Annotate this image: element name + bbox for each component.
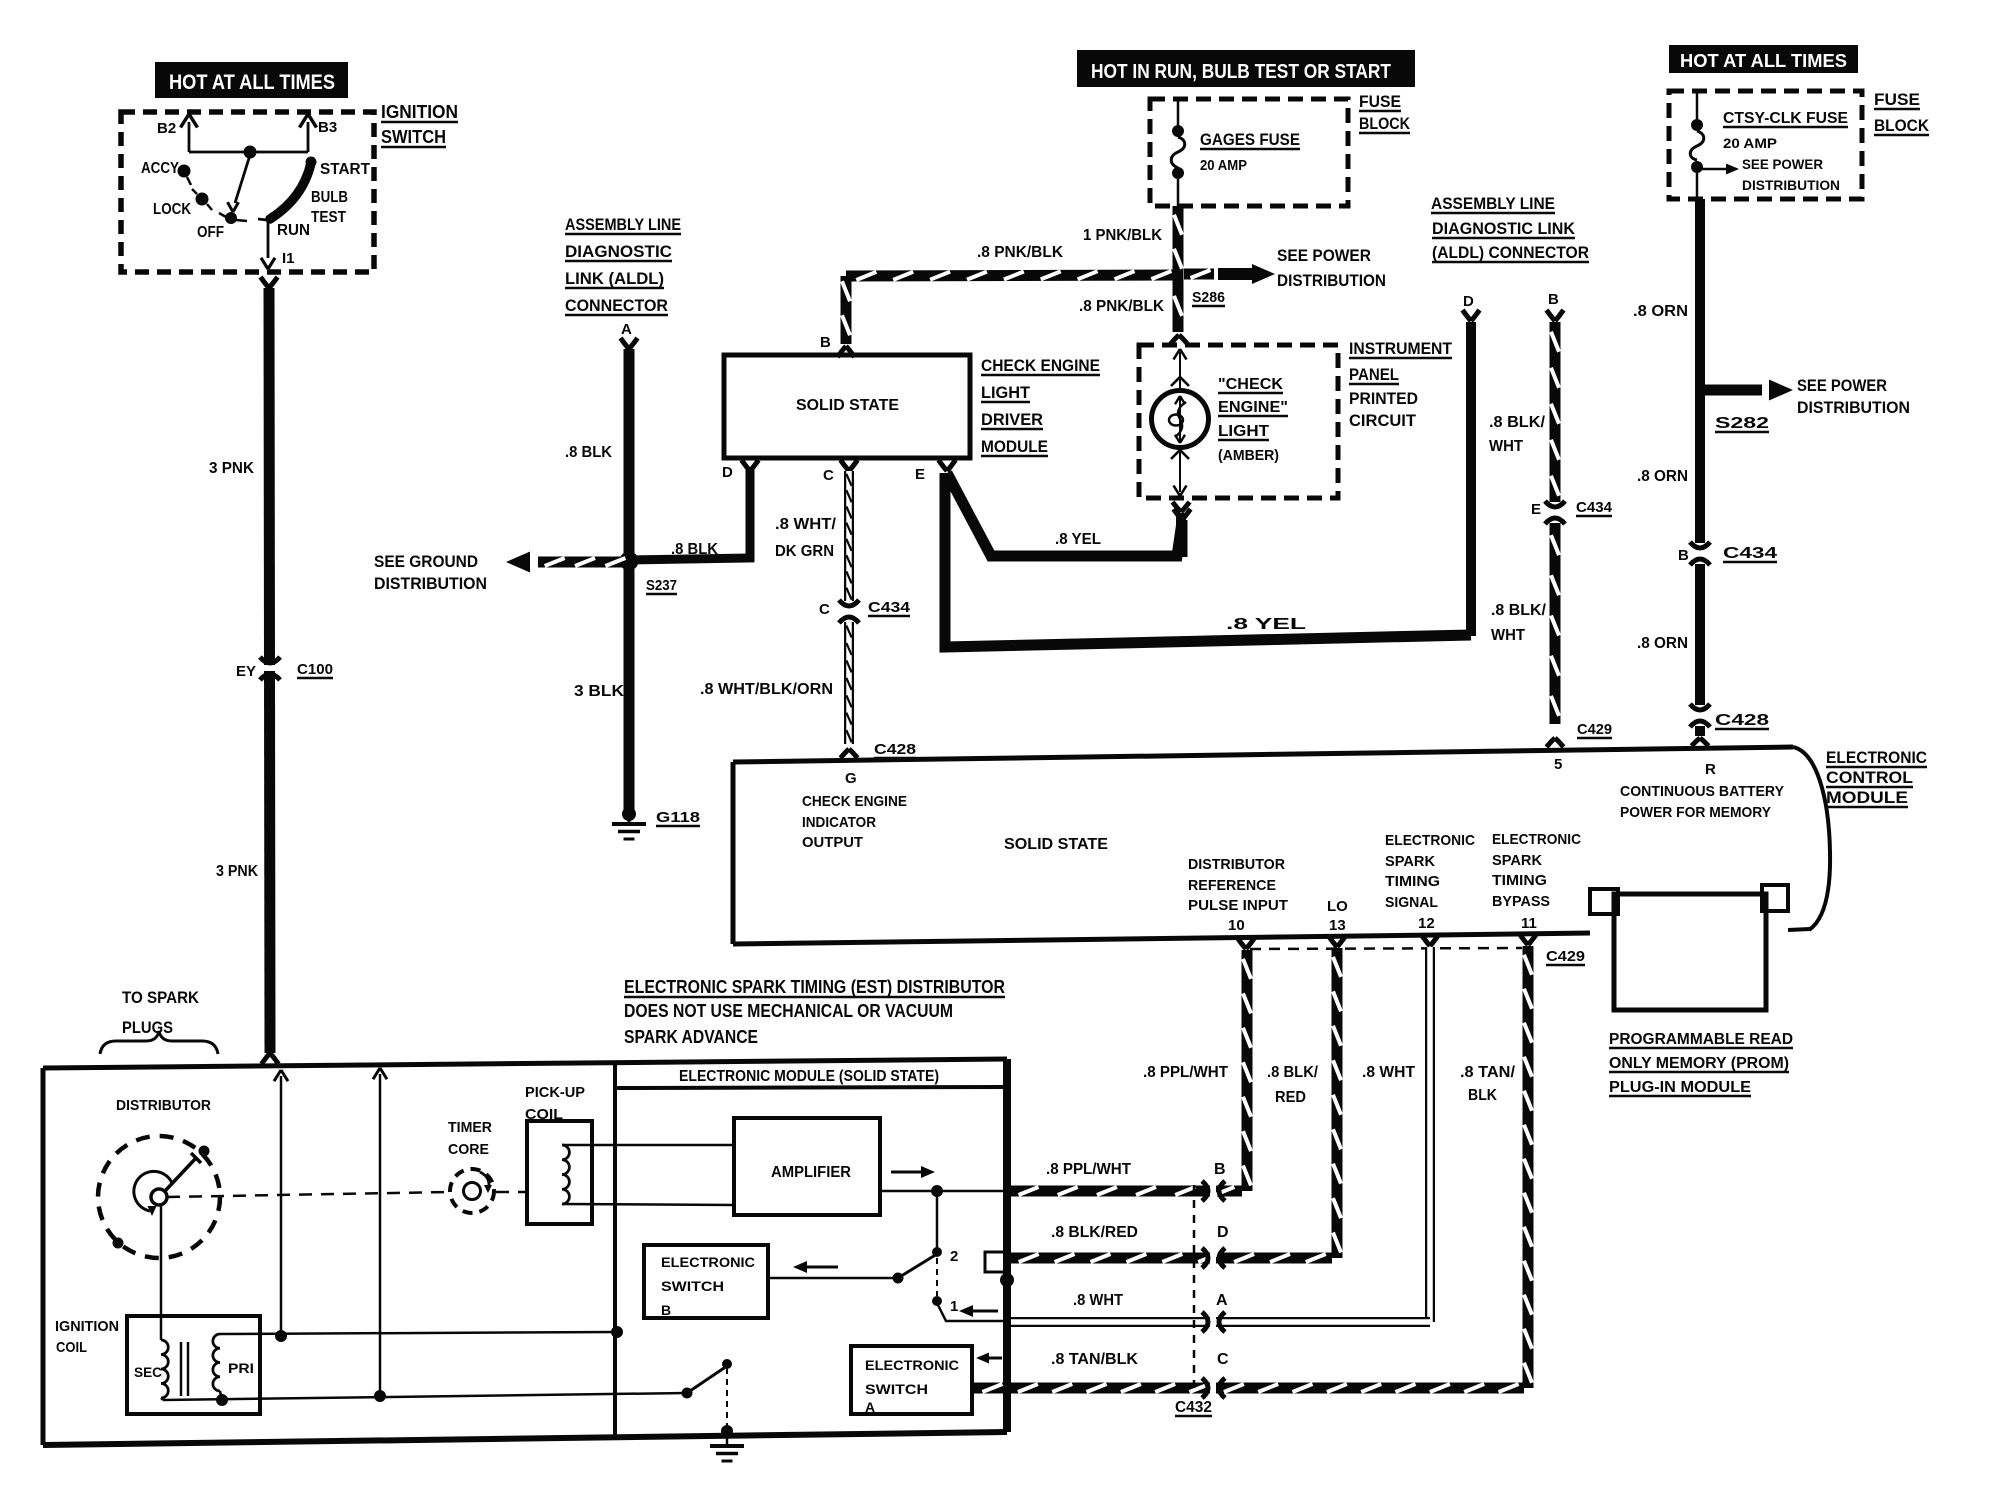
- svg-text:B2: B2: [157, 120, 176, 137]
- svg-text:BLK: BLK: [1468, 1087, 1497, 1104]
- svg-text:G: G: [845, 770, 857, 787]
- svg-text:ELECTRONIC: ELECTRONIC: [1492, 831, 1581, 848]
- svg-text:.8 BLK/: .8 BLK/: [1489, 414, 1546, 431]
- svg-text:C432: C432: [1175, 1399, 1212, 1416]
- svg-text:DIAGNOSTIC: DIAGNOSTIC: [565, 242, 672, 261]
- svg-text:TO SPARK: TO SPARK: [122, 988, 200, 1007]
- svg-text:.8 WHT/: .8 WHT/: [775, 516, 837, 533]
- svg-text:.8 BLK: .8 BLK: [671, 541, 718, 558]
- svg-text:CONNECTOR: CONNECTOR: [565, 296, 668, 315]
- svg-text:DOES NOT USE MECHANICAL OR VAC: DOES NOT USE MECHANICAL OR VACUUM: [624, 1001, 953, 1021]
- svg-text:CHECK ENGINE: CHECK ENGINE: [981, 356, 1100, 375]
- svg-text:IGNITION: IGNITION: [55, 1318, 119, 1335]
- svg-text:C434: C434: [1576, 499, 1613, 516]
- svg-text:C428: C428: [1715, 712, 1769, 729]
- svg-text:SEE POWER: SEE POWER: [1277, 246, 1371, 265]
- svg-text:EY: EY: [236, 663, 256, 680]
- svg-text:SEE GROUND: SEE GROUND: [374, 552, 478, 571]
- svg-text:SEE POWER: SEE POWER: [1797, 376, 1887, 395]
- svg-text:SWITCH: SWITCH: [865, 1381, 928, 1397]
- svg-text:DISTRIBUTION: DISTRIBUTION: [1277, 271, 1386, 290]
- svg-text:3 PNK: 3 PNK: [216, 863, 258, 880]
- svg-text:BULB: BULB: [311, 189, 348, 206]
- svg-text:TEST: TEST: [311, 209, 346, 226]
- svg-text:INSTRUMENT: INSTRUMENT: [1349, 339, 1453, 358]
- svg-text:START: START: [320, 161, 370, 178]
- svg-text:LINK (ALDL): LINK (ALDL): [565, 269, 664, 288]
- svg-text:INDICATOR: INDICATOR: [802, 814, 876, 831]
- svg-text:CONTROL: CONTROL: [1826, 768, 1913, 787]
- svg-text:GAGES FUSE: GAGES FUSE: [1200, 130, 1300, 149]
- svg-text:.8 ORN: .8 ORN: [1633, 303, 1688, 320]
- svg-text:RED: RED: [1275, 1089, 1306, 1106]
- svg-text:BLOCK: BLOCK: [1359, 114, 1411, 133]
- svg-text:SWITCH: SWITCH: [661, 1278, 724, 1294]
- svg-text:IGNITION: IGNITION: [381, 102, 458, 122]
- svg-text:5: 5: [1554, 756, 1562, 773]
- svg-text:B: B: [1678, 547, 1689, 564]
- svg-text:.8 YEL: .8 YEL: [1226, 616, 1306, 633]
- svg-text:11: 11: [1521, 915, 1537, 932]
- svg-text:CONTINUOUS BATTERY: CONTINUOUS BATTERY: [1620, 783, 1784, 800]
- svg-text:AMPLIFIER: AMPLIFIER: [771, 1164, 851, 1181]
- svg-text:DISTRIBUTION: DISTRIBUTION: [374, 574, 487, 593]
- svg-text:.8 ORN: .8 ORN: [1637, 635, 1688, 652]
- svg-text:WHT: WHT: [1491, 627, 1525, 644]
- svg-text:PICK-UP: PICK-UP: [525, 1084, 585, 1101]
- svg-text:FUSE: FUSE: [1874, 90, 1920, 109]
- svg-text:ELECTRONIC: ELECTRONIC: [1826, 748, 1927, 767]
- svg-text:2: 2: [950, 1248, 958, 1265]
- svg-text:.8 PPL/WHT: .8 PPL/WHT: [1143, 1064, 1228, 1081]
- svg-text:CIRCUIT: CIRCUIT: [1349, 411, 1417, 430]
- svg-text:LIGHT: LIGHT: [1218, 423, 1269, 440]
- svg-text:FUSE: FUSE: [1359, 92, 1401, 111]
- svg-text:.8 BLK/: .8 BLK/: [1491, 602, 1547, 619]
- svg-text:PANEL: PANEL: [1349, 365, 1399, 384]
- svg-text:PRI: PRI: [228, 1360, 254, 1376]
- svg-text:ONLY MEMORY (PROM): ONLY MEMORY (PROM): [1609, 1055, 1789, 1072]
- svg-text:C100: C100: [297, 661, 333, 678]
- svg-text:BYPASS: BYPASS: [1492, 893, 1550, 910]
- svg-text:.8 PPL/WHT: .8 PPL/WHT: [1046, 1161, 1131, 1178]
- svg-text:.8 BLK: .8 BLK: [565, 444, 612, 461]
- svg-text:SPARK: SPARK: [1492, 852, 1542, 869]
- svg-text:S282: S282: [1715, 415, 1769, 432]
- svg-text:DISTRIBUTION: DISTRIBUTION: [1742, 177, 1840, 193]
- svg-text:A: A: [865, 1399, 875, 1415]
- svg-text:1: 1: [950, 1298, 958, 1315]
- svg-text:.8 WHT: .8 WHT: [1073, 1292, 1123, 1309]
- svg-text:SEE POWER: SEE POWER: [1742, 156, 1823, 172]
- svg-text:LIGHT: LIGHT: [981, 383, 1031, 402]
- svg-text:3 PNK: 3 PNK: [209, 460, 254, 477]
- svg-text:SPARK ADVANCE: SPARK ADVANCE: [624, 1027, 758, 1047]
- svg-text:C: C: [1217, 1351, 1229, 1368]
- svg-text:C429: C429: [1546, 948, 1585, 965]
- svg-text:ELECTRONIC MODULE (SOLID STATE: ELECTRONIC MODULE (SOLID STATE): [679, 1068, 939, 1085]
- svg-text:ACCY: ACCY: [141, 160, 179, 177]
- svg-text:3 BLK: 3 BLK: [574, 683, 624, 700]
- svg-text:A: A: [1216, 1292, 1228, 1309]
- svg-text:HOT AT ALL TIMES: HOT AT ALL TIMES: [169, 71, 335, 94]
- svg-text:POWER FOR MEMORY: POWER FOR MEMORY: [1620, 804, 1771, 821]
- svg-text:13: 13: [1329, 917, 1346, 934]
- svg-text:PULSE INPUT: PULSE INPUT: [1188, 897, 1288, 914]
- svg-text:CTSY-CLK FUSE: CTSY-CLK FUSE: [1723, 110, 1848, 127]
- svg-text:B: B: [1214, 1161, 1226, 1178]
- svg-text:DISTRIBUTOR: DISTRIBUTOR: [116, 1097, 211, 1114]
- svg-text:CHECK ENGINE: CHECK ENGINE: [802, 793, 907, 810]
- svg-text:LOCK: LOCK: [153, 201, 191, 218]
- svg-text:10: 10: [1228, 917, 1245, 934]
- svg-text:"CHECK: "CHECK: [1218, 376, 1283, 393]
- svg-text:TIMING: TIMING: [1385, 873, 1440, 890]
- svg-text:S286: S286: [1192, 289, 1225, 306]
- svg-text:A: A: [621, 321, 632, 338]
- svg-text:.8 BLK/: .8 BLK/: [1267, 1064, 1319, 1081]
- svg-text:DIAGNOSTIC LINK: DIAGNOSTIC LINK: [1432, 219, 1576, 238]
- svg-text:(AMBER): (AMBER): [1218, 447, 1279, 464]
- svg-text:1 PNK/BLK: 1 PNK/BLK: [1083, 227, 1162, 244]
- svg-text:BLOCK: BLOCK: [1874, 116, 1930, 135]
- svg-text:(ALDL) CONNECTOR: (ALDL) CONNECTOR: [1432, 243, 1589, 262]
- svg-text:DISTRIBUTION: DISTRIBUTION: [1797, 398, 1910, 417]
- svg-text:C429: C429: [1577, 721, 1612, 738]
- svg-text:.8 TAN/: .8 TAN/: [1460, 1064, 1516, 1081]
- svg-text:R: R: [1705, 761, 1716, 778]
- svg-text:MODULE: MODULE: [981, 437, 1048, 456]
- svg-text:ELECTRONIC: ELECTRONIC: [661, 1254, 755, 1270]
- svg-text:HOT IN RUN, BULB TEST OR STAR: HOT IN RUN, BULB TEST OR START: [1091, 61, 1391, 83]
- svg-text:20 AMP: 20 AMP: [1723, 135, 1777, 151]
- svg-text:PLUGS: PLUGS: [122, 1018, 173, 1037]
- svg-text:DRIVER: DRIVER: [981, 410, 1043, 429]
- svg-text:REFERENCE: REFERENCE: [1188, 877, 1276, 894]
- svg-text:TIMING: TIMING: [1492, 872, 1547, 889]
- svg-text:D: D: [722, 464, 733, 481]
- svg-text:TIMER: TIMER: [448, 1119, 492, 1136]
- svg-text:HOT AT ALL TIMES: HOT AT ALL TIMES: [1680, 51, 1847, 71]
- svg-text:S237: S237: [646, 577, 677, 594]
- svg-text:ELECTRONIC: ELECTRONIC: [865, 1357, 959, 1373]
- svg-text:MODULE: MODULE: [1826, 788, 1908, 807]
- svg-text:12: 12: [1418, 915, 1435, 932]
- svg-text:C434: C434: [868, 599, 911, 616]
- svg-text:ELECTRONIC: ELECTRONIC: [1385, 832, 1475, 849]
- svg-text:I1: I1: [282, 250, 295, 267]
- svg-text:ASSEMBLY LINE: ASSEMBLY LINE: [565, 215, 681, 234]
- svg-text:B3: B3: [318, 119, 337, 136]
- svg-text:COIL: COIL: [56, 1339, 87, 1356]
- svg-text:C434: C434: [1723, 545, 1777, 562]
- svg-text:.8 WHT: .8 WHT: [1362, 1064, 1415, 1081]
- svg-text:G118: G118: [656, 809, 700, 826]
- svg-text:C428: C428: [874, 741, 916, 758]
- svg-text:RUN: RUN: [277, 222, 310, 239]
- svg-text:.8 BLK/RED: .8 BLK/RED: [1051, 1224, 1138, 1241]
- svg-text:PLUG-IN MODULE: PLUG-IN MODULE: [1609, 1079, 1751, 1096]
- svg-text:PRINTED: PRINTED: [1349, 389, 1418, 408]
- svg-text:SOLID STATE: SOLID STATE: [796, 397, 899, 414]
- svg-text:SWITCH: SWITCH: [381, 127, 446, 147]
- svg-text:20 AMP: 20 AMP: [1200, 157, 1247, 174]
- svg-text:SIGNAL: SIGNAL: [1385, 894, 1438, 911]
- svg-text:.8 ORN: .8 ORN: [1637, 468, 1688, 485]
- svg-text:DK GRN: DK GRN: [775, 543, 834, 560]
- svg-text:C: C: [823, 467, 834, 484]
- svg-text:LO: LO: [1327, 898, 1348, 915]
- svg-text:SOLID STATE: SOLID STATE: [1004, 836, 1108, 853]
- svg-text:D: D: [1217, 1224, 1229, 1241]
- svg-text:E: E: [915, 466, 925, 483]
- svg-text:OUTPUT: OUTPUT: [802, 834, 863, 851]
- svg-text:SPARK: SPARK: [1385, 853, 1435, 870]
- svg-text:ELECTRONIC SPARK TIMING (EST): ELECTRONIC SPARK TIMING (EST) DISTRIBUTO…: [624, 977, 1005, 997]
- svg-text:C: C: [819, 601, 830, 618]
- svg-text:.8 PNK/BLK: .8 PNK/BLK: [1079, 298, 1164, 315]
- svg-text:B: B: [1548, 291, 1559, 308]
- svg-text:.8 YEL: .8 YEL: [1055, 531, 1101, 548]
- svg-text:ASSEMBLY LINE: ASSEMBLY LINE: [1431, 194, 1555, 213]
- svg-text:WHT: WHT: [1489, 438, 1523, 455]
- svg-text:CORE: CORE: [448, 1141, 489, 1158]
- svg-text:SEC: SEC: [134, 1364, 162, 1380]
- svg-text:OFF: OFF: [197, 224, 224, 241]
- svg-text:PROGRAMMABLE READ: PROGRAMMABLE READ: [1609, 1031, 1793, 1048]
- svg-text:B: B: [820, 334, 831, 351]
- svg-text:.8 TAN/BLK: .8 TAN/BLK: [1051, 1351, 1138, 1368]
- svg-text:D: D: [1463, 293, 1474, 310]
- svg-text:.8 WHT/BLK/ORN: .8 WHT/BLK/ORN: [700, 681, 833, 698]
- svg-text:B: B: [661, 1302, 671, 1318]
- svg-text:.8 PNK/BLK: .8 PNK/BLK: [977, 244, 1063, 261]
- svg-text:DISTRIBUTOR: DISTRIBUTOR: [1188, 856, 1285, 873]
- svg-text:ENGINE": ENGINE": [1218, 399, 1288, 416]
- svg-text:E: E: [1531, 501, 1541, 518]
